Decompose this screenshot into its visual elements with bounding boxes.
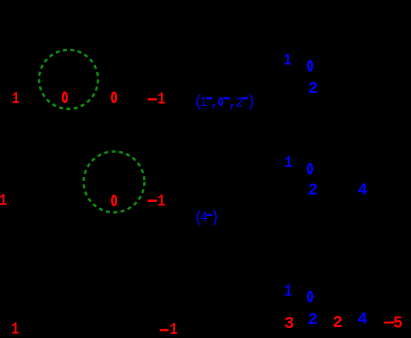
svg-text:1: 1 [0, 193, 7, 211]
svg-text:1: 1 [284, 155, 292, 173]
svg-text:2: 2 [333, 313, 343, 332]
svg-text:1: 1 [200, 95, 206, 110]
label D1 value 0b [112, 93, 116, 103]
svg-text:1: 1 [284, 283, 292, 301]
label D2 value minus1 [148, 200, 157, 203]
svg-text:1: 1 [157, 91, 165, 109]
label T3 node 0 [308, 292, 312, 302]
svg-text:1: 1 [284, 52, 292, 70]
label D1 value 0a (circled vertex) [63, 93, 67, 103]
label step1 (1-,0-,2-) [194, 93, 256, 111]
label step2 (4-) [194, 208, 220, 226]
svg-text:5: 5 [393, 313, 403, 332]
svg-text:2: 2 [308, 310, 318, 329]
svg-text:1: 1 [157, 193, 165, 211]
svg-text:2: 2 [308, 181, 318, 200]
svg-text:,: , [210, 93, 220, 111]
svg-text:1: 1 [12, 91, 20, 109]
label T1 node 0 [308, 61, 312, 71]
highlight circle C2 (green dashed) [84, 152, 145, 213]
label T3 leaf minus5 (red) [384, 322, 394, 324]
svg-text:1: 1 [170, 322, 178, 338]
svg-text:4: 4 [357, 310, 367, 329]
svg-text:): ) [246, 93, 255, 111]
highlight circle C1 (green dashed) [39, 50, 98, 109]
svg-text:4: 4 [200, 211, 208, 226]
label D2 value 0 (circled vertex) [112, 196, 116, 206]
label D3 value minus1 [160, 329, 169, 331]
label T2 node 0 [308, 164, 312, 174]
svg-text:1: 1 [11, 322, 19, 338]
svg-text:3: 3 [284, 314, 294, 333]
svg-text:): ) [210, 208, 219, 226]
label D1 value minus1 [148, 98, 157, 100]
svg-text:4: 4 [358, 181, 368, 200]
svg-text:2: 2 [308, 79, 318, 98]
